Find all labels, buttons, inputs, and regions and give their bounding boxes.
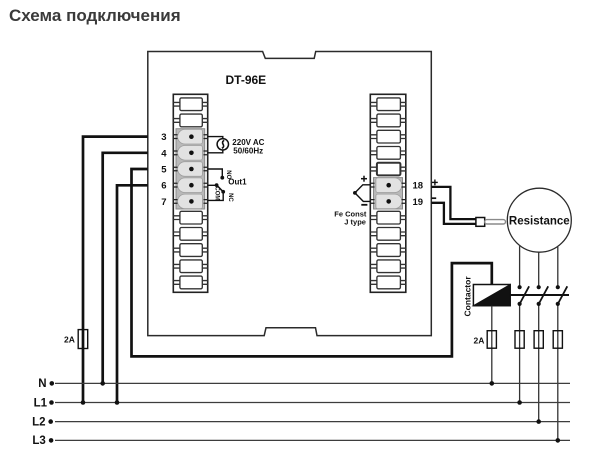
- node N start: [50, 381, 55, 386]
- svg-text:L2: L2: [32, 416, 45, 428]
- junction pole1 wire on L1: [517, 400, 522, 405]
- fuse F5: [553, 331, 562, 349]
- svg-text:5: 5: [161, 165, 167, 176]
- heater load Resistance: [507, 188, 571, 252]
- wire pin6 to L1: [117, 185, 148, 402]
- left terminal strip outline: [173, 94, 207, 292]
- terminal cell R10: [370, 244, 406, 257]
- wire coil to fuse F2 to N: [491, 306, 493, 384]
- wire resistance to pole 2: [538, 252, 540, 287]
- svg-text:N: N: [38, 378, 46, 390]
- junction pin4 wire on N: [100, 381, 105, 386]
- fuse F3: [515, 331, 524, 349]
- rail N: [55, 382, 570, 384]
- terminal cell R9: [370, 228, 406, 241]
- svg-text:J type: J type: [344, 218, 366, 227]
- probe connector body: [476, 218, 485, 227]
- terminal pin 6: [173, 178, 207, 193]
- terminal cell L2: [173, 114, 207, 127]
- contactor pole 2: [537, 285, 549, 306]
- terminal cell R2: [370, 114, 406, 127]
- svg-text:Contactor: Contactor: [463, 276, 473, 317]
- right terminal strip outline: [370, 94, 406, 292]
- rail L2: [55, 421, 570, 423]
- svg-text:4: 4: [161, 148, 167, 159]
- node L2 start: [48, 419, 53, 424]
- terminal cell R12: [370, 276, 406, 289]
- svg-text:L3: L3: [32, 435, 45, 447]
- svg-text:Out1: Out1: [228, 177, 247, 186]
- terminal cell L9: [173, 228, 207, 241]
- fuse F1 2A: [78, 330, 88, 349]
- svg-text:COM: COM: [213, 186, 219, 200]
- wire resistance to pole 3: [557, 247, 559, 288]
- terminal cell R1: [370, 98, 406, 111]
- rail L3: [55, 439, 570, 441]
- svg-text:2A: 2A: [64, 334, 75, 344]
- wire pin19 to probe: [431, 203, 476, 224]
- svg-text:Схема подключения: Схема подключения: [9, 6, 181, 25]
- terminal pin 4: [173, 146, 207, 161]
- terminal cell R8: [370, 211, 406, 224]
- svg-text:19: 19: [413, 197, 424, 208]
- wire pole 3 to fuse F5 to L3: [557, 304, 559, 441]
- terminal cell L8: [173, 211, 207, 224]
- fuse F4: [534, 331, 543, 349]
- rail L1: [55, 402, 570, 404]
- terminal cell R3: [370, 130, 406, 143]
- terminal pin 18: [370, 178, 406, 193]
- svg-text:18: 18: [413, 181, 424, 192]
- fuse F2 2A: [487, 331, 496, 349]
- polarity plus (thermocouple): [361, 176, 367, 182]
- svg-text:2A: 2A: [474, 335, 485, 345]
- terminal cell L1: [173, 98, 207, 111]
- polarity minus (thermocouple): [361, 204, 367, 206]
- svg-text:L1: L1: [34, 397, 48, 409]
- contactor coil: [473, 285, 510, 306]
- terminal pin 3: [173, 129, 207, 144]
- terminal cell R11: [370, 260, 406, 273]
- junction pole3 wire on L3: [556, 438, 561, 443]
- svg-text:Resistance: Resistance: [509, 216, 570, 228]
- terminal pin 7: [173, 194, 207, 209]
- wire pin18 to probe: [431, 187, 476, 219]
- svg-text:NC: NC: [227, 193, 233, 202]
- node L1 start: [49, 400, 54, 405]
- contactor pole 1: [518, 285, 530, 306]
- junction pin6 wire on L1: [115, 400, 120, 405]
- junction coil wire on N: [490, 381, 495, 386]
- terminal cell L11: [173, 260, 207, 273]
- relay contact Out1 (pins 5,6,7): [208, 169, 225, 200]
- polarity minus (pin 19 wire): [432, 197, 437, 199]
- terminal cell R5: [370, 163, 406, 176]
- connector block right (pins 18-19): [374, 178, 403, 209]
- thermocouple junction bead: [353, 185, 370, 202]
- controller DT-96E panel outline: [148, 52, 432, 336]
- terminal pin 5: [173, 162, 207, 177]
- terminal pin 19: [370, 194, 406, 209]
- contactor pole 3: [556, 285, 568, 306]
- connector block left (pins 3-7): [176, 129, 205, 209]
- probe sheath: [485, 220, 506, 224]
- wire resistance to pole 1: [519, 246, 521, 287]
- contactor linkage bar: [510, 294, 569, 296]
- svg-text:6: 6: [161, 181, 166, 192]
- svg-text:7: 7: [161, 197, 166, 208]
- junction pin3 wire on L1: [81, 400, 86, 405]
- wire pin5 to contactor coil: [132, 169, 492, 356]
- terminal cell R4: [370, 147, 406, 160]
- wire pole 1 to fuse F3 to L1: [519, 304, 521, 403]
- terminal cell L12: [173, 276, 207, 289]
- wire pin3 to fuse F1 to L1: [83, 137, 148, 403]
- node L3 start: [49, 438, 54, 443]
- terminal cell L10: [173, 244, 207, 257]
- svg-text:50/60Hz: 50/60Hz: [233, 146, 263, 155]
- wire pin4 to N: [103, 153, 148, 384]
- junction pole2 wire on L2: [536, 419, 541, 424]
- AC supply source symbol (pins 3-4): [208, 137, 229, 153]
- polarity plus (pin 18 wire): [432, 180, 438, 186]
- svg-text:3: 3: [161, 132, 166, 143]
- wire pole 2 to fuse F4 to L2: [538, 304, 540, 422]
- svg-text:DT-96E: DT-96E: [226, 73, 267, 87]
